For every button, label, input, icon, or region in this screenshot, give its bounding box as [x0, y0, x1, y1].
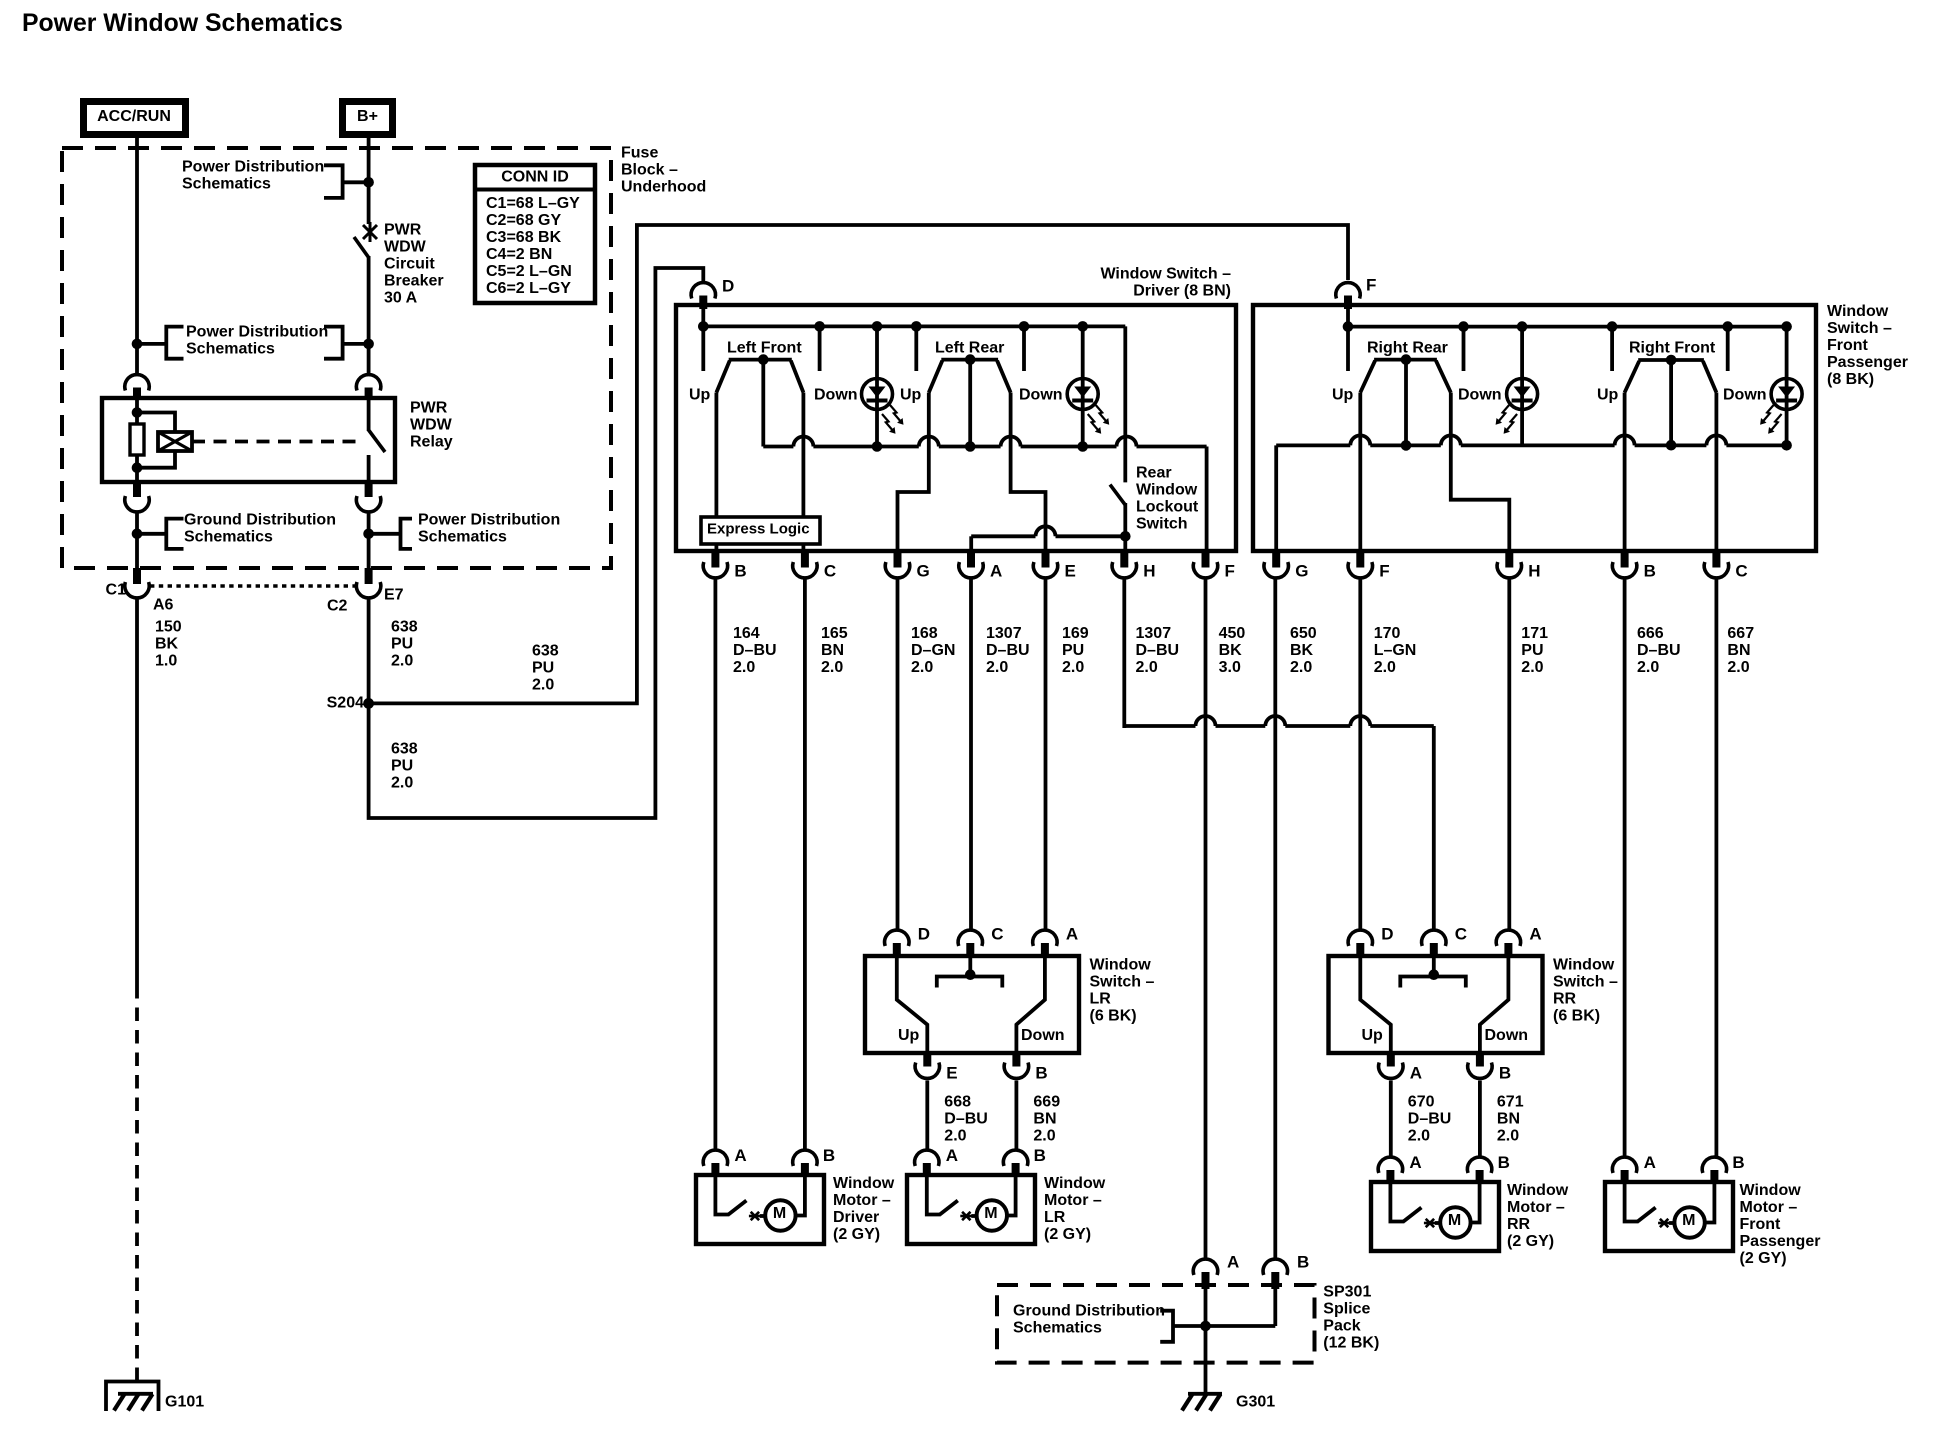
right rear up output wire (to pin F): [1358, 393, 1362, 552]
connector A of window switch LR: [1033, 930, 1057, 946]
right rear common drop: [1404, 360, 1408, 446]
motor M circle of window motor driver: [765, 1200, 795, 1230]
CONN ID table: [475, 165, 595, 303]
output pin B of window switch LR: [1012, 1053, 1020, 1067]
thermal contact asterisk inside window motor driver: [749, 1212, 761, 1220]
svg-text:PWRWDWCircuitBreaker30 A: PWRWDWCircuitBreaker30 A: [384, 222, 444, 307]
svg-text:B+: B+: [357, 108, 378, 125]
svg-text:B: B: [734, 562, 746, 581]
svg-text:1307D–BU2.0: 1307D–BU2.0: [986, 625, 1030, 676]
motor M circle of window motor RR: [1440, 1207, 1470, 1237]
right rear rocker switch: [1374, 358, 1437, 362]
svg-text:M: M: [773, 1205, 786, 1222]
svg-text:G101: G101: [165, 1394, 204, 1411]
svg-text:H: H: [1528, 562, 1540, 581]
motor switch contact inside window motor front passenger: [1625, 1182, 1639, 1222]
rear window lockout switch feed: [1123, 326, 1127, 482]
right front up output wire (to pin B): [1623, 393, 1627, 552]
wire 150 BK 1.0 (dashed part): [135, 985, 139, 1381]
left rear down output wire (to pin E): [1011, 393, 1046, 552]
wire asterisk to motor of window motor RR: [1435, 1221, 1441, 1225]
svg-text:B: B: [1499, 1064, 1511, 1083]
wire asterisk to motor of window motor LR: [971, 1214, 977, 1218]
motor switch blade inside window motor driver: [728, 1201, 746, 1215]
left rear rocker switch: [941, 358, 998, 362]
svg-text:Express Logic: Express Logic: [707, 521, 810, 538]
window motor LR box: [907, 1175, 1035, 1244]
window switch front passenger: connector F: [1336, 283, 1360, 299]
window switch - driver box: [676, 305, 1236, 551]
wire 638 PU 2.0 to passenger switch (S204 right, up, across): [369, 225, 1348, 703]
svg-text:WindowMotor –RR(2 GY): WindowMotor –RR(2 GY): [1507, 1182, 1569, 1250]
wire 168 D-GN 2.0 (driver G to LR switch D): [896, 579, 900, 929]
svg-text:168D–GN2.0: 168D–GN2.0: [911, 625, 955, 676]
rocker pivot contacts of window switch LR: [968, 956, 972, 975]
svg-text:A: A: [1644, 1153, 1656, 1172]
power feed box B+: [343, 102, 393, 135]
svg-text:F: F: [1379, 562, 1389, 581]
svg-text:638PU2.0: 638PU2.0: [391, 619, 418, 670]
window motor driver box: [696, 1175, 824, 1244]
svg-text:PWRWDWRelay: PWRWDWRelay: [410, 400, 453, 451]
left front common drop: [761, 360, 765, 447]
connector A of window switch RR: [1496, 930, 1520, 946]
svg-text:1307D–BU2.0: 1307D–BU2.0: [1136, 625, 1180, 676]
motor switch blade inside window motor LR: [940, 1201, 958, 1215]
LED left front: [862, 379, 893, 410]
svg-text:WindowSwitch –LR(6 BK): WindowSwitch –LR(6 BK): [1090, 957, 1155, 1025]
relay coil (box with X): [158, 432, 192, 451]
wire 671 BN: [1478, 1081, 1482, 1158]
LED wire right front: [1785, 327, 1789, 446]
wire circuit breaker to relay: [367, 256, 371, 373]
junction on B+ wire at power distribution tap: [363, 177, 374, 188]
svg-text:M: M: [984, 1205, 997, 1222]
down blade of window switch RR: [1480, 956, 1509, 1053]
svg-text:165BN2.0: 165BN2.0: [821, 625, 848, 676]
svg-text:M: M: [1448, 1212, 1461, 1229]
connector D of window switch RR: [1348, 930, 1372, 946]
window switch RR box: [1329, 956, 1543, 1053]
splice pack connector A: [1193, 1259, 1217, 1275]
wire 638 PU 2.0 from C2 to S204: [367, 599, 371, 703]
passenger switch pin F: [1356, 551, 1364, 568]
left front up output wire (to pin B): [715, 393, 719, 552]
svg-text:A: A: [1409, 1153, 1421, 1172]
power feed box ACC/RUN: [84, 102, 186, 135]
svg-text:B: B: [1644, 562, 1656, 581]
passenger switch pin B: [1621, 551, 1629, 568]
svg-text:671BN2.0: 671BN2.0: [1497, 1094, 1524, 1145]
wire relay to C2: [367, 512, 371, 578]
LED wire left rear: [1081, 326, 1085, 446]
LED wire left front: [875, 326, 879, 446]
right front common drop: [1669, 360, 1673, 445]
svg-text:F: F: [1366, 276, 1376, 295]
wire motor to B terminal inside window motor RR: [1470, 1182, 1479, 1223]
svg-text:G301: G301: [1236, 1394, 1275, 1411]
driver switch pin B: [711, 551, 719, 568]
wire 170 L-GN 2.0 (passenger F to RR switch D): [1358, 579, 1362, 929]
rear window lockout switch blade: [1110, 485, 1125, 505]
output pin A of window switch RR: [1387, 1053, 1395, 1067]
svg-text:Down: Down: [814, 387, 858, 404]
svg-text:C1=68 L–GYC2=68 GYC3=68 BKC4=2: C1=68 L–GYC2=68 GYC3=68 BKC4=2 BNC5=2 L–…: [486, 195, 580, 297]
svg-text:Right Rear: Right Rear: [1367, 340, 1448, 357]
svg-text:D: D: [918, 925, 930, 944]
svg-text:A: A: [946, 1146, 958, 1165]
thermal contact asterisk inside window motor front passenger: [1658, 1219, 1670, 1227]
motor M circle of window motor LR: [977, 1200, 1007, 1230]
down blade of window switch LR: [1016, 956, 1045, 1053]
wire 669 BN: [1015, 1081, 1019, 1151]
left front rocker switch: [729, 358, 792, 362]
fuse block - underhood dashed outline: [62, 148, 611, 568]
svg-text:A: A: [1410, 1064, 1422, 1083]
connector below relay (B+ side): [365, 480, 373, 497]
svg-text:A6: A6: [153, 597, 174, 614]
svg-text:B: B: [1498, 1153, 1510, 1172]
svg-text:Left Front: Left Front: [727, 340, 802, 357]
connector into PWR WDW relay (ACC side): [125, 375, 149, 391]
driver switch pin F: [1202, 551, 1210, 568]
connector pin A of window motor LR: [915, 1150, 939, 1166]
relay coil branch return: [137, 451, 175, 468]
wire B+ feed down to circuit breaker: [367, 135, 371, 224]
window switch - front passenger box: [1253, 305, 1816, 551]
svg-text:G: G: [1295, 562, 1308, 581]
window motor front passenger box: [1605, 1182, 1733, 1251]
svg-text:164D–BU2.0: 164D–BU2.0: [733, 625, 777, 676]
wire asterisk to motor of window motor driver: [760, 1214, 766, 1218]
LED right rear: [1507, 379, 1538, 410]
svg-text:E: E: [946, 1064, 957, 1083]
svg-text:B: B: [1732, 1153, 1744, 1172]
svg-text:WindowMotor –Driver(2 GY): WindowMotor –Driver(2 GY): [833, 1175, 895, 1243]
driver switch pin A: [967, 551, 975, 568]
wire relay to C1: [135, 512, 139, 578]
wire ACC/RUN feed down: [135, 135, 139, 373]
driver switch pin E: [1042, 551, 1050, 568]
right front switch: down contact stub: [1726, 327, 1730, 371]
svg-text:666D–BU2.0: 666D–BU2.0: [1637, 625, 1681, 676]
svg-text:Power DistributionSchematics: Power DistributionSchematics: [418, 512, 560, 546]
wire 150 BK 1.0 (solid part): [135, 599, 139, 985]
right rear down output wire (to pin H): [1451, 393, 1510, 552]
right front switch: up contact stub: [1610, 327, 1614, 371]
connector below relay (ACC side): [133, 480, 141, 497]
wire motor to B terminal inside window motor front passenger: [1705, 1182, 1715, 1223]
right rear switch: down contact stub: [1462, 327, 1466, 371]
driver switch pin G: [894, 551, 902, 568]
PWR WDW relay box: [102, 398, 395, 482]
connector pin B of window motor LR: [1003, 1150, 1027, 1166]
wire 638 PU 2.0 to driver switch (S204 down, right, up): [369, 268, 704, 818]
right front rocker switch: [1638, 358, 1704, 362]
rear window lockout switch output: [1123, 503, 1127, 551]
svg-text:WindowMotor –FrontPassenger(2: WindowMotor –FrontPassenger(2 GY): [1740, 1182, 1821, 1267]
svg-text:ACC/RUN: ACC/RUN: [97, 108, 171, 125]
svg-text:668D–BU2.0: 668D–BU2.0: [944, 1094, 988, 1145]
svg-text:Down: Down: [1723, 387, 1767, 404]
svg-text:CONN ID: CONN ID: [501, 169, 569, 186]
svg-text:E: E: [1065, 562, 1076, 581]
svg-text:C: C: [991, 925, 1003, 944]
passenger express common line: [1276, 435, 1792, 551]
splice S204: [363, 698, 374, 709]
junction on B+ wire: [363, 339, 374, 350]
connector C2 (pin E7): [365, 568, 373, 584]
wire 169 PU 2.0 (driver E to LR switch A): [1044, 579, 1048, 929]
svg-text:B: B: [823, 1146, 835, 1165]
svg-text:H: H: [1143, 562, 1155, 581]
LED right front: [1771, 379, 1802, 410]
driver switch supply bus: [701, 309, 705, 371]
connector pin A of window motor RR: [1378, 1157, 1402, 1173]
svg-text:669BN2.0: 669BN2.0: [1033, 1094, 1060, 1145]
wire 1307 D-BU 2.0 (driver H to RR switch C): [1124, 579, 1434, 929]
ground G301: [1182, 1394, 1222, 1411]
svg-text:WindowSwitch –RR(6 BK): WindowSwitch –RR(6 BK): [1553, 957, 1618, 1025]
svg-text:D: D: [722, 277, 734, 296]
ground G101: [106, 1382, 159, 1412]
wire 165 BN 2.0 (driver C to driver motor B): [803, 579, 807, 1150]
left rear up output wire (to pin G): [898, 393, 929, 552]
svg-text:FuseBlock –Underhood: FuseBlock –Underhood: [621, 145, 706, 196]
thermal contact asterisk inside window motor LR: [960, 1212, 972, 1220]
connector pin B of window motor RR: [1467, 1157, 1491, 1173]
svg-text:C: C: [1455, 925, 1467, 944]
LED left rear: [1067, 379, 1098, 410]
output pin E of window switch LR: [923, 1053, 931, 1067]
window motor RR box: [1371, 1182, 1499, 1251]
svg-text:Power Window Schematics: Power Window Schematics: [22, 10, 343, 37]
up blade of window switch RR: [1360, 956, 1391, 1053]
wire motor to B terminal inside window motor driver: [795, 1175, 805, 1216]
up blade of window switch LR: [897, 956, 928, 1053]
LED wire right rear: [1520, 327, 1524, 446]
svg-text:D: D: [1381, 925, 1393, 944]
connector body dotted line C1-C2: [150, 584, 355, 587]
svg-text:670D–BU2.0: 670D–BU2.0: [1408, 1094, 1452, 1145]
passenger switch pin G: [1272, 551, 1280, 568]
output pin B of window switch RR: [1476, 1053, 1484, 1067]
wire 670 D–BU: [1389, 1081, 1393, 1158]
driver express common line: [763, 437, 1206, 552]
wire 171 PU 2.0 (passenger H to RR switch A): [1507, 579, 1511, 929]
connector pin A of window motor driver: [703, 1150, 727, 1166]
driver switch pin H: [1120, 551, 1128, 568]
svg-text:S204: S204: [327, 695, 364, 712]
svg-text:169PU2.0: 169PU2.0: [1062, 625, 1089, 676]
svg-text:Up: Up: [689, 387, 711, 404]
svg-text:638PU2.0: 638PU2.0: [532, 643, 559, 694]
svg-text:Up: Up: [898, 1027, 920, 1044]
svg-text:Power DistributionSchematics: Power DistributionSchematics: [182, 159, 324, 193]
svg-text:A: A: [990, 562, 1002, 581]
motor M circle of window motor front passenger: [1674, 1207, 1704, 1237]
svg-text:E7: E7: [384, 587, 404, 604]
svg-text:Ground DistributionSchematics: Ground DistributionSchematics: [1013, 1303, 1165, 1337]
svg-text:171PU2.0: 171PU2.0: [1521, 625, 1548, 676]
passenger switch pin H: [1505, 551, 1513, 568]
svg-text:B: B: [1297, 1253, 1309, 1272]
wire 668 D–BU: [925, 1081, 929, 1151]
svg-text:Down: Down: [1458, 387, 1502, 404]
svg-text:A: A: [1066, 925, 1078, 944]
svg-text:Down: Down: [1019, 387, 1063, 404]
relay switch blade: [367, 398, 371, 431]
driver switch pin C: [801, 551, 809, 568]
passenger switch pin C: [1712, 551, 1720, 568]
svg-text:Up: Up: [1362, 1027, 1384, 1044]
svg-text:Up: Up: [1332, 387, 1354, 404]
lockout output to pin A wire: [971, 526, 1125, 551]
SP301 splice pack dashed box: [997, 1285, 1315, 1363]
PWR WDW circuit breaker 30A symbol: [363, 222, 377, 242]
wire motor to B terminal inside window motor LR: [1007, 1175, 1016, 1216]
connector pin B of window motor front passenger: [1702, 1157, 1726, 1173]
connector C of window switch LR: [958, 930, 982, 946]
relay coil resistor: [130, 424, 144, 455]
thermal contact asterisk inside window motor RR: [1424, 1219, 1436, 1227]
connector C of window switch RR: [1422, 930, 1446, 946]
express logic box: [701, 517, 820, 544]
motor switch blade inside window motor RR: [1403, 1208, 1421, 1222]
svg-text:Power DistributionSchematics: Power DistributionSchematics: [186, 324, 328, 358]
window switch LR box: [865, 956, 1079, 1053]
wire 1307 D-BU 2.0 (driver A to LR switch C): [969, 579, 973, 929]
svg-text:667BN2.0: 667BN2.0: [1727, 625, 1754, 676]
connector pin A of window motor front passenger: [1612, 1157, 1636, 1173]
svg-text:A: A: [1529, 925, 1541, 944]
svg-text:B: B: [1035, 1064, 1047, 1083]
rocker pivot contacts of window switch RR: [1432, 956, 1436, 975]
wire 666 D-BU 2.0 (passenger B to FP motor A): [1623, 579, 1627, 1157]
motor switch contact inside window motor LR: [927, 1175, 941, 1215]
svg-text:150BK1.0: 150BK1.0: [155, 619, 182, 670]
svg-text:Down: Down: [1485, 1027, 1529, 1044]
svg-text:Right Front: Right Front: [1629, 340, 1716, 357]
left rear common drop: [968, 360, 972, 447]
svg-text:650BK2.0: 650BK2.0: [1290, 625, 1317, 676]
wire asterisk to motor of window motor front passenger: [1669, 1221, 1675, 1225]
svg-text:Down: Down: [1021, 1027, 1065, 1044]
relay control dashed link: [192, 440, 362, 444]
svg-text:170L–GN2.0: 170L–GN2.0: [1374, 625, 1417, 676]
splice bus inside SP301: [1173, 1324, 1275, 1328]
svg-text:WindowMotor –LR(2 GY): WindowMotor –LR(2 GY): [1044, 1175, 1106, 1243]
left front switch: down contact stub: [818, 326, 822, 371]
svg-text:Window Switch –Driver (8 BN): Window Switch –Driver (8 BN): [1100, 266, 1231, 300]
junction at splice: [1200, 1321, 1211, 1332]
svg-text:F: F: [1225, 562, 1235, 581]
connector pin B of window motor driver: [793, 1150, 817, 1166]
svg-text:638PU2.0: 638PU2.0: [391, 741, 418, 792]
left rear switch: up contact stub: [914, 326, 918, 371]
svg-text:C2: C2: [327, 598, 348, 615]
svg-text:Left Rear: Left Rear: [935, 340, 1004, 357]
junction on ACC wire: [132, 339, 143, 350]
svg-text:Up: Up: [900, 387, 922, 404]
svg-text:C: C: [824, 562, 836, 581]
wire splice to G301: [1204, 1287, 1208, 1392]
motor switch blade inside window motor front passenger: [1638, 1208, 1656, 1222]
svg-text:SP301SplicePack(12 BK): SP301SplicePack(12 BK): [1323, 1284, 1379, 1352]
svg-text:B: B: [1034, 1146, 1046, 1165]
svg-text:G: G: [917, 562, 930, 581]
svg-text:450BK3.0: 450BK3.0: [1219, 625, 1246, 676]
splice pack connector B: [1263, 1259, 1287, 1275]
svg-text:Up: Up: [1597, 387, 1619, 404]
passenger switch supply bus: [1346, 309, 1350, 371]
svg-text:RearWindowLockoutSwitch: RearWindowLockoutSwitch: [1136, 465, 1199, 533]
relay coil branch wiring: [135, 398, 139, 424]
connector into PWR WDW relay (B+ side): [356, 375, 380, 391]
svg-text:A: A: [734, 1146, 746, 1165]
window switch driver: connector D: [691, 283, 715, 299]
svg-text:C: C: [1735, 562, 1747, 581]
connector D of window switch LR: [885, 930, 909, 946]
left rear switch: down contact stub: [1022, 326, 1026, 371]
wire 164 D-BU 2.0 (driver B to driver motor A): [714, 579, 718, 1150]
wire 450 BK 3.0 (driver F to splice pack A): [1204, 579, 1208, 1258]
right front down output wire (to pin C): [1715, 393, 1719, 552]
svg-text:A: A: [1227, 1253, 1239, 1272]
svg-text:M: M: [1682, 1212, 1695, 1229]
left front down output wire (to pin C): [802, 393, 806, 552]
svg-text:Ground DistributionSchematics: Ground DistributionSchematics: [184, 512, 336, 546]
wire 667 BN 2.0 (passenger C to FP motor B): [1715, 579, 1719, 1157]
svg-text:WindowSwitch –FrontPassenger(8: WindowSwitch –FrontPassenger(8 BK): [1827, 303, 1908, 388]
motor switch contact inside window motor RR: [1390, 1182, 1404, 1222]
svg-text:C1: C1: [106, 582, 127, 599]
connector C1 (pin A6): [133, 568, 141, 584]
motor switch contact inside window motor driver: [715, 1175, 729, 1215]
wire 650 BK 2.0 (passenger G to splice pack B): [1273, 579, 1277, 1258]
